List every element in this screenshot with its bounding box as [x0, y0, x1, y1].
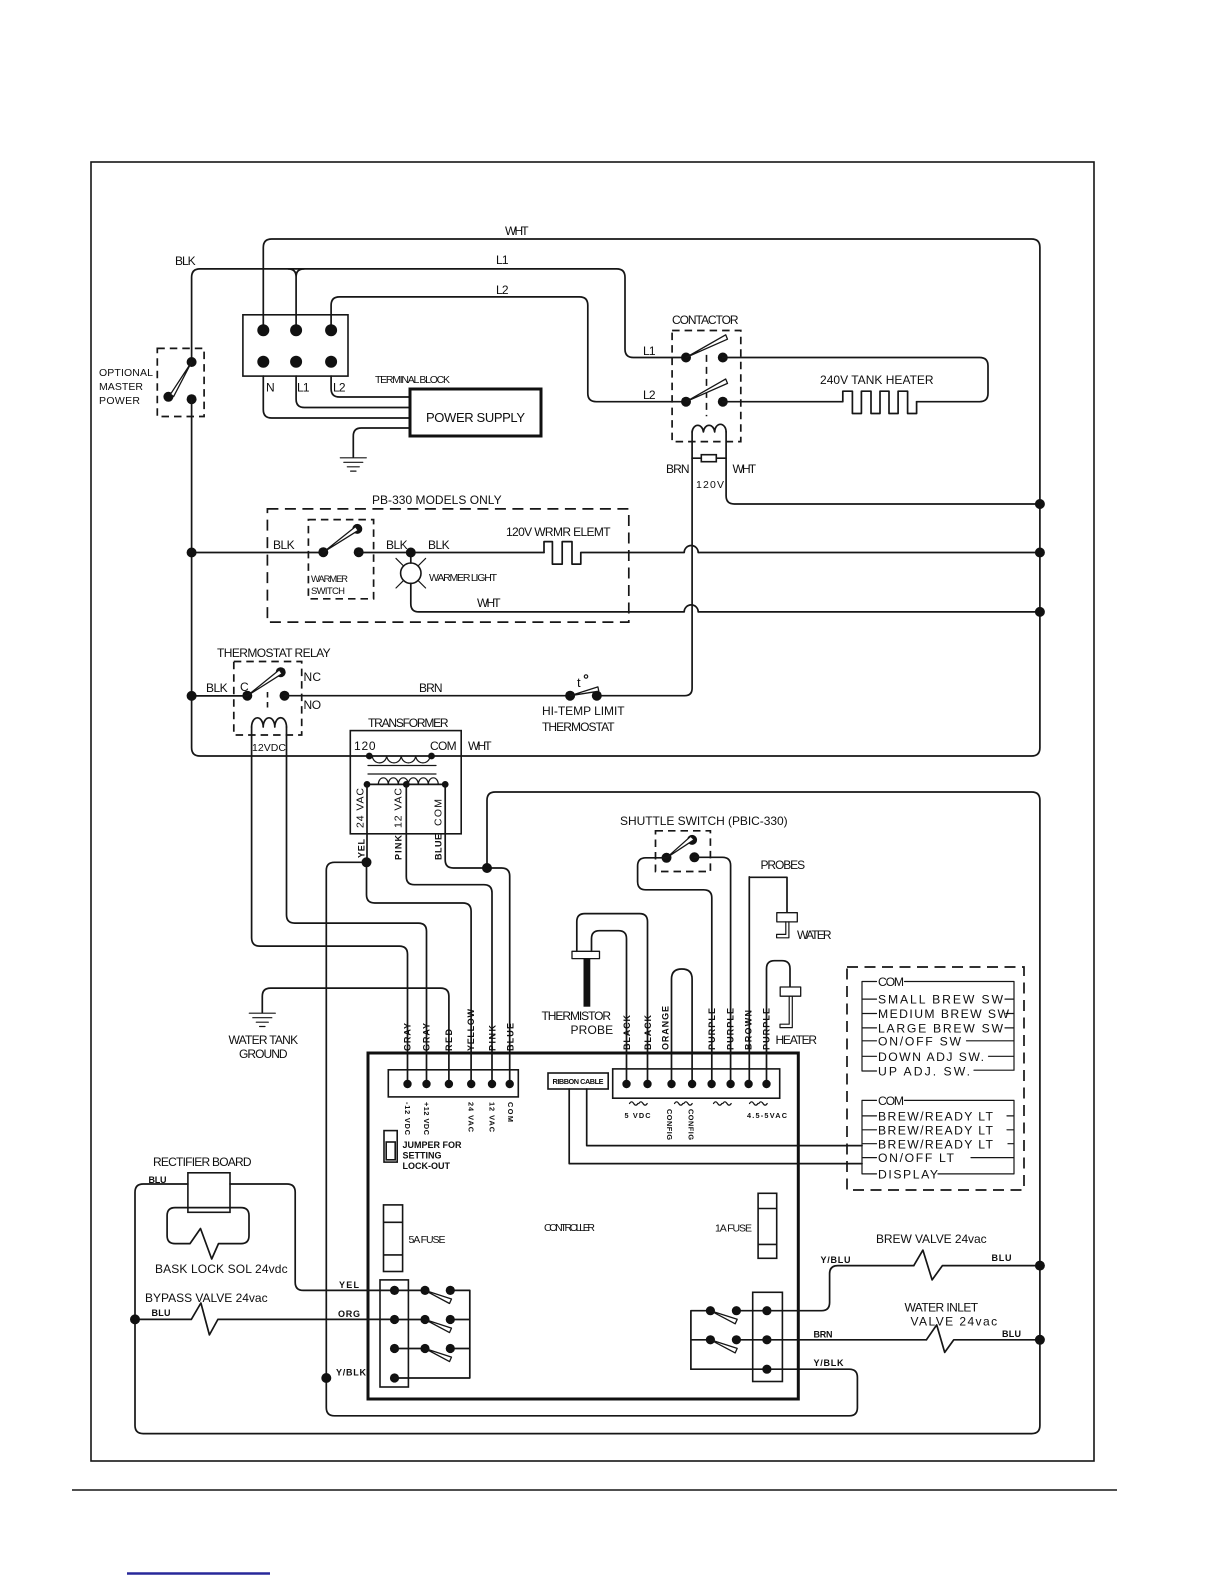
legend switch labels: [878, 975, 1009, 1079]
svg-text:BLU: BLU: [1002, 1329, 1021, 1339]
junction node BLU bypass: [130, 1314, 140, 1324]
junction node YEL 24VAC: [362, 857, 372, 867]
svg-text:CONTROLLER: CONTROLLER: [544, 1222, 595, 1234]
svg-text:BASK LOCK SOL 24vdc: BASK LOCK SOL 24vdc: [155, 1262, 288, 1276]
power supply U-PS: [410, 389, 541, 436]
wire BRN right relay row2 to water inlet valve: [767, 1330, 927, 1340]
svg-text:PURPLE: PURPLE: [762, 1008, 772, 1050]
svg-text:12 VAC: 12 VAC: [488, 1102, 497, 1133]
transformer core: [368, 766, 436, 775]
svg-text:WARMER: WARMER: [311, 574, 348, 585]
svg-text:DOWN ADJ SW.: DOWN ADJ SW.: [878, 1050, 984, 1064]
svg-text:SETTING: SETTING: [403, 1151, 442, 1161]
svg-text:WATER INLET: WATER INLET: [905, 1301, 979, 1315]
left connector pin labels: [403, 1102, 515, 1136]
relay coil 12VDC: [252, 718, 287, 754]
svg-text:RIBBON CABLE: RIBBON CABLE: [553, 1077, 604, 1086]
wire GRAY coil lead 1 to -12VDC pin: [252, 727, 408, 1084]
svg-text:L2: L2: [643, 388, 656, 402]
thermistor probe P3: [542, 951, 614, 1037]
terminal block: [243, 315, 450, 395]
svg-text:COM: COM: [878, 975, 904, 989]
wire PURPLE shuttle right contact to pin 6: [694, 857, 730, 1084]
wire GRAY coil lead 2 to +12VDC pin: [287, 727, 427, 1084]
svg-text:PROBE: PROBE: [571, 1023, 614, 1037]
wire PURPLE heater probe bridge to pin 8: [767, 961, 791, 1084]
water inlet valve V2 24vac: [905, 1301, 1040, 1353]
warmer light LT1: [396, 553, 498, 589]
wire BROWN probes feeder to pin 7: [749, 858, 805, 1084]
svg-text:L1: L1: [297, 381, 310, 395]
svg-text:Y/BLK: Y/BLK: [814, 1358, 845, 1368]
svg-text:BRN: BRN: [666, 462, 690, 476]
svg-text:BLK: BLK: [428, 538, 450, 552]
wire BLUE junction to COM pin: [487, 868, 510, 1084]
transformer T1: [350, 716, 492, 834]
svg-text:BLACK: BLACK: [643, 1015, 653, 1051]
svg-text:BREW/READY LT: BREW/READY LT: [878, 1110, 994, 1124]
svg-text:RECTIFIER BOARD: RECTIFIER BOARD: [153, 1155, 252, 1169]
wire ribbon cable lead A to legend: [587, 1089, 862, 1146]
svg-text:LARGE BREW SW: LARGE BREW SW: [878, 1022, 1003, 1036]
transformer primary winding: [369, 755, 431, 757]
junction node master-power / thermostat C row: [187, 691, 197, 701]
svg-text:LOCK-OUT: LOCK-OUT: [403, 1161, 451, 1171]
contactor coil 120V: [666, 424, 1040, 504]
svg-text:BLU: BLU: [149, 1175, 167, 1185]
legend light labels: [878, 1094, 994, 1182]
svg-text:WATER TANK: WATER TANK: [229, 1033, 299, 1047]
svg-text:THERMOSTAT: THERMOSTAT: [542, 720, 615, 734]
wire BLU rectifier to bask-lock YEL row: [230, 1184, 395, 1290]
transformer secondary winding: [367, 783, 445, 785]
svg-text:COM: COM: [433, 799, 445, 826]
junction node rail / contactor coil WHT: [1035, 499, 1045, 509]
svg-text:WHT: WHT: [468, 739, 492, 753]
right relay contacts K4: [691, 1306, 767, 1369]
svg-text:4.5-5VAC: 4.5-5VAC: [747, 1111, 788, 1120]
optional master power switch S1: [99, 348, 204, 416]
brew valve V1 24vac: [876, 1232, 1040, 1280]
jumper for setting lock-out: [384, 1131, 462, 1171]
svg-text:PROBES: PROBES: [761, 858, 806, 872]
svg-text:BLU: BLU: [992, 1253, 1012, 1263]
power supply ground wire: [353, 428, 410, 457]
svg-text:L1: L1: [643, 344, 656, 358]
svg-text:NO: NO: [304, 698, 322, 712]
svg-text:PB-330 MODELS ONLY: PB-330 MODELS ONLY: [372, 493, 502, 507]
junction node YEL vertical / Y-BLK row: [321, 1373, 331, 1383]
svg-text:YEL: YEL: [357, 839, 367, 859]
right connector squiggle marks and labels: [625, 1102, 788, 1141]
svg-text:WARMER LIGHT: WARMER LIGHT: [429, 572, 498, 584]
svg-text:PURPLE: PURPLE: [707, 1008, 717, 1050]
svg-text:ON/OFF LT: ON/OFF LT: [878, 1151, 955, 1165]
svg-text:N: N: [266, 381, 275, 395]
svg-text:GRAY: GRAY: [403, 1023, 413, 1051]
svg-text:120V: 120V: [696, 479, 724, 491]
svg-text:12VDC: 12VDC: [252, 742, 286, 754]
wire BRN NO row to hi-temp thermostat: [285, 681, 571, 696]
svg-text:HI-TEMP LIMIT: HI-TEMP LIMIT: [542, 704, 625, 718]
240V tank heater R1: [723, 358, 988, 414]
wire PINK 12VAC lead to 12VAC pin: [406, 784, 492, 1084]
svg-text:YELLOW: YELLOW: [466, 1009, 476, 1052]
svg-text:24 VAC: 24 VAC: [467, 1102, 476, 1133]
wire C row to master-power drop: [192, 695, 248, 697]
svg-text:L2: L2: [496, 283, 509, 297]
hi-temp limit thermostat S3: [542, 675, 625, 734]
svg-text:BLACK: BLACK: [622, 1015, 632, 1051]
svg-text:ON/OFF SW: ON/OFF SW: [878, 1034, 961, 1048]
svg-text:CONFIG: CONFIG: [665, 1109, 674, 1140]
wire YEL branch to 24VAC pin: [367, 862, 472, 1084]
legend light group bus: [862, 1100, 1014, 1174]
svg-text:12 VAC: 12 VAC: [393, 788, 405, 828]
water level probe P1: [777, 913, 832, 942]
svg-text:COM: COM: [430, 739, 457, 753]
bask lock solenoid L1: [155, 1208, 288, 1276]
svg-text:120: 120: [354, 739, 376, 753]
legend dashed box (membrane switch / display harness): [847, 967, 1024, 1190]
svg-text:TERMINAL BLOCK: TERMINAL BLOCK: [375, 374, 450, 386]
svg-text:PINK: PINK: [488, 1025, 498, 1052]
svg-text:GROUND: GROUND: [239, 1047, 288, 1061]
svg-text:1A FUSE: 1A FUSE: [715, 1223, 752, 1235]
svg-text:ORG: ORG: [338, 1309, 360, 1319]
wire BLUE COM lead to junction: [445, 784, 487, 868]
svg-text:BREW/READY LT: BREW/READY LT: [878, 1123, 994, 1137]
heater level probe P2: [776, 987, 818, 1047]
shuttle switch S4: [620, 814, 788, 872]
svg-text:BYPASS VALVE 24vac: BYPASS VALVE 24vac: [145, 1291, 268, 1305]
wire ribbon cable lead B to legend: [569, 1089, 862, 1164]
svg-text:THERMISTOR: THERMISTOR: [542, 1009, 612, 1023]
water tank ground symbol: [229, 1013, 299, 1061]
svg-text:BLUE: BLUE: [434, 834, 444, 860]
wire BLK master power drop to transformer 120: [192, 399, 370, 756]
svg-text:HEATER: HEATER: [776, 1033, 818, 1047]
svg-text:24 VAC: 24 VAC: [355, 788, 367, 828]
svg-text:C: C: [240, 680, 249, 694]
svg-text:120V WRMR ELEMT: 120V WRMR ELEMT: [506, 525, 611, 539]
wires terminal block to power supply: [263, 376, 410, 418]
svg-text:BRN: BRN: [419, 681, 443, 695]
footer link line: [127, 1572, 270, 1574]
rotated wire labels above left connector: [403, 1009, 516, 1052]
PB-330 models only dashed box: [267, 493, 628, 622]
svg-text:POWER: POWER: [99, 395, 140, 407]
svg-text:5A FUSE: 5A FUSE: [409, 1234, 446, 1246]
svg-text:5 VDC: 5 VDC: [625, 1111, 652, 1120]
svg-text:+12 VDC: +12 VDC: [422, 1102, 431, 1136]
wire YEL long branch down left side to Y/BLK bottom run: [326, 862, 857, 1415]
ground symbol (power supply): [340, 458, 366, 471]
left relay connector J3: [336, 1280, 408, 1387]
warmer switch S2: [308, 520, 373, 599]
junction node rail / warmer light WHT row: [1035, 607, 1045, 617]
svg-text:TRANSFORMER: TRANSFORMER: [368, 716, 449, 730]
svg-text:WATER: WATER: [797, 928, 832, 942]
svg-text:THERMOSTAT RELAY: THERMOSTAT RELAY: [217, 646, 331, 660]
svg-text:NC: NC: [304, 670, 322, 684]
wire RED water tank ground to pin 3: [262, 988, 449, 1084]
legend switch group bus: [862, 982, 1014, 1072]
wire BRN contactor coil to hi-temp thermostat: [597, 432, 692, 696]
wire BLACK thermistor lead A to pin 2: [577, 914, 648, 1084]
wire WHT warmer light return: [411, 583, 1040, 612]
svg-text:CONTACTOR: CONTACTOR: [672, 313, 739, 327]
svg-text:SHUTTLE SWITCH (PBIC-330): SHUTTLE SWITCH (PBIC-330): [620, 814, 788, 828]
svg-text:CONFIG: CONFIG: [687, 1109, 696, 1140]
svg-text:GRAY: GRAY: [422, 1023, 432, 1051]
svg-text:COM: COM: [506, 1102, 515, 1122]
ribbon cable connector: [548, 1073, 608, 1089]
bypass valve zigzag wire to ORG row: [135, 1303, 395, 1335]
svg-text:JUMPER FOR: JUMPER FOR: [403, 1140, 463, 1150]
svg-text:BREW/READY LT: BREW/READY LT: [878, 1137, 994, 1151]
svg-text:ORANGE: ORANGE: [661, 1006, 671, 1050]
border frame: [72, 162, 1117, 1490]
svg-text:BRN: BRN: [814, 1330, 833, 1340]
svg-text:MASTER: MASTER: [99, 381, 143, 393]
svg-text:SWITCH: SWITCH: [311, 586, 345, 597]
jumper ORANGE pins 3-4 U-loop: [672, 969, 693, 1084]
svg-text:YEL: YEL: [339, 1280, 360, 1290]
rectifier board: [149, 1155, 253, 1212]
junction node master-power / warmer row: [187, 548, 197, 558]
left connector J1: [388, 1070, 518, 1097]
svg-text:BLU: BLU: [152, 1308, 171, 1318]
fuse F1 5A: [384, 1205, 446, 1272]
svg-text:WHT: WHT: [505, 224, 529, 238]
right relay connector J4: [753, 1292, 783, 1381]
junction node rail / warmer element row: [1035, 548, 1045, 558]
wire Y/BLU right relay row1 to brew valve: [767, 1255, 914, 1311]
svg-text:RED: RED: [444, 1029, 454, 1052]
fuse F2 1A: [715, 1193, 777, 1258]
svg-text:BLUE: BLUE: [506, 1023, 516, 1051]
wire WHT main (top run + right neutral rail into transformer primary): [263, 224, 1040, 756]
svg-text:UP ADJ. SW.: UP ADJ. SW.: [878, 1065, 970, 1079]
junction node warmer element branch: [406, 548, 416, 558]
svg-text:POWER SUPPLY: POWER SUPPLY: [426, 410, 526, 425]
rotated wire labels above right connector: [622, 1006, 772, 1050]
thermostat relay K2: [206, 646, 331, 735]
bypass valve label: [145, 1291, 268, 1318]
svg-text:WHT: WHT: [733, 462, 757, 476]
wire COM feeder to right neutral rail (shuttle row + right side + bottom run): [135, 792, 1040, 1434]
svg-text:L2: L2: [333, 381, 346, 395]
right connector J2: [613, 1069, 780, 1098]
svg-text:L1: L1: [496, 253, 509, 267]
svg-text:BROWN: BROWN: [744, 1010, 754, 1050]
wire BLK / L1 (top feed to contactor): [175, 253, 686, 362]
wire PURPLE shuttle left contact to pin 5: [638, 858, 712, 1084]
wire BLK warmer row (left segment): [192, 538, 324, 553]
wire L2 (top feed to contactor): [331, 283, 686, 402]
svg-text:COM: COM: [878, 1094, 904, 1108]
controller board box: [368, 1053, 798, 1399]
svg-text:BLK: BLK: [206, 681, 228, 695]
svg-text:OPTIONAL: OPTIONAL: [99, 367, 153, 379]
svg-text:t: t: [577, 675, 581, 690]
svg-text:PURPLE: PURPLE: [726, 1008, 736, 1050]
wire BLACK thermistor lead B to pin 1: [592, 931, 627, 1084]
svg-text:PINK: PINK: [394, 835, 404, 861]
svg-text:VALVE 24vac: VALVE 24vac: [911, 1315, 998, 1329]
svg-text:BLK: BLK: [273, 538, 295, 552]
svg-text:240V TANK HEATER: 240V TANK HEATER: [820, 373, 934, 387]
junction node BLUE COM: [482, 863, 492, 873]
wire YEL 24VAC lead to junction: [366, 784, 368, 862]
120V warmer element R2: [506, 525, 1040, 564]
svg-text:Y/BLK: Y/BLK: [336, 1368, 367, 1378]
junction node rail / brew valve BLU: [1035, 1261, 1045, 1271]
svg-text:-12 VDC: -12 VDC: [403, 1102, 412, 1136]
wire BLK after warmer switch: [359, 538, 544, 553]
junction node rail / water inlet BLU: [1035, 1335, 1045, 1345]
svg-text:BLK: BLK: [386, 538, 408, 552]
svg-text:WHT: WHT: [477, 596, 501, 610]
contactor K1: [643, 313, 741, 442]
svg-text:Y/BLU: Y/BLU: [821, 1255, 851, 1265]
left relay contacts K3: [395, 1286, 470, 1378]
svg-text:BREW VALVE 24vac: BREW VALVE 24vac: [876, 1232, 987, 1246]
svg-text:BLK: BLK: [175, 254, 196, 268]
